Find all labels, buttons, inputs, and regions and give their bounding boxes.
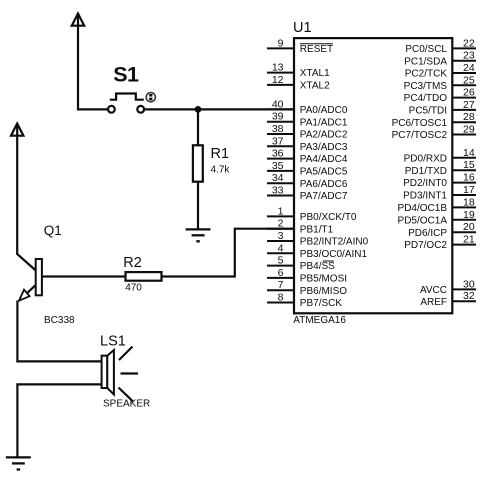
- svg-text:23: 23: [463, 50, 475, 62]
- svg-text:PD3/INT1: PD3/INT1: [403, 191, 447, 202]
- svg-text:PA4/ADC4: PA4/ADC4: [300, 154, 348, 165]
- svg-text:20: 20: [463, 221, 475, 233]
- svg-text:32: 32: [463, 290, 475, 302]
- power symbol VCC arrow (left): [11, 124, 23, 136]
- wire speaker bottom to ground: [17, 384, 101, 457]
- svg-text:PA3/ADC3: PA3/ADC3: [300, 142, 348, 153]
- svg-text:12: 12: [272, 74, 284, 86]
- svg-text:18: 18: [463, 196, 475, 208]
- pin 8 stub: [267, 302, 294, 304]
- svg-text:40: 40: [272, 98, 284, 110]
- svg-text:7: 7: [278, 279, 284, 291]
- svg-text:S1: S1: [113, 63, 139, 87]
- pin 33 stub: [267, 195, 294, 197]
- svg-text:34: 34: [272, 172, 284, 184]
- wire Q1 base to R2: [42, 275, 126, 277]
- pin 29 stub: [452, 134, 476, 136]
- pin 25 stub: [452, 84, 476, 86]
- switch S1 actuator icon: [146, 93, 155, 102]
- svg-text:1: 1: [278, 205, 284, 217]
- ground (under R1): [186, 229, 211, 241]
- pin 5 stub: [267, 265, 294, 267]
- svg-text:PB3/OC0/AIN1: PB3/OC0/AIN1: [300, 249, 368, 260]
- svg-text:PC1/SDA: PC1/SDA: [404, 56, 447, 67]
- svg-text:PB6/MISO: PB6/MISO: [300, 286, 347, 297]
- pin 39 stub: [267, 121, 294, 123]
- pin 18 stub: [452, 206, 476, 208]
- svg-text:37: 37: [272, 135, 284, 147]
- transistor Q1 emitter arrowhead: [19, 290, 30, 301]
- svg-text:ATMEGA16: ATMEGA16: [293, 315, 346, 326]
- svg-text:PD4/OC1B: PD4/OC1B: [398, 203, 448, 214]
- wire R1 to ground: [197, 182, 199, 230]
- transistor Q1 base bar: [36, 259, 42, 295]
- pin 38 stub: [267, 133, 294, 135]
- pin 17 stub: [452, 194, 476, 196]
- pin 20 stub: [452, 231, 476, 233]
- svg-text:2: 2: [278, 218, 284, 230]
- pin 16 stub: [452, 182, 476, 184]
- svg-text:19: 19: [463, 209, 475, 221]
- svg-text:16: 16: [463, 172, 475, 184]
- pin 34 stub: [267, 182, 294, 184]
- speaker LS1 sound waves: [119, 347, 139, 402]
- svg-text:PC7/TOSC2: PC7/TOSC2: [392, 130, 448, 141]
- pin 40 stub: [267, 108, 294, 110]
- switch S1: [108, 94, 144, 113]
- svg-text:PB1/T1: PB1/T1: [300, 224, 334, 235]
- svg-text:21: 21: [463, 234, 475, 246]
- pin 27 stub: [452, 109, 476, 111]
- wire Q1 emitter down: [17, 301, 101, 362]
- svg-text:3: 3: [278, 230, 284, 242]
- pin 35 stub: [267, 170, 294, 172]
- svg-text:5: 5: [278, 255, 284, 267]
- pin 36 stub: [267, 158, 294, 160]
- svg-text:R1: R1: [211, 146, 230, 162]
- svg-text:PD5/OC1A: PD5/OC1A: [398, 215, 448, 226]
- svg-text:24: 24: [463, 62, 475, 74]
- pin 6 stub: [267, 277, 294, 279]
- svg-text:39: 39: [272, 111, 284, 123]
- svg-text:30: 30: [463, 278, 475, 290]
- svg-text:PA0/ADC0: PA0/ADC0: [300, 105, 348, 116]
- svg-text:13: 13: [272, 62, 284, 74]
- svg-text:Q1: Q1: [44, 223, 62, 238]
- pin 9 stub: [267, 47, 294, 49]
- svg-text:25: 25: [463, 74, 475, 86]
- IC U1 ATMEGA16 body: [294, 38, 452, 313]
- pin 1 stub: [267, 215, 294, 217]
- svg-text:PD7/OC2: PD7/OC2: [404, 240, 447, 251]
- svg-text:15: 15: [463, 159, 475, 171]
- pin 21 stub: [452, 244, 476, 246]
- svg-text:PA2/ADC2: PA2/ADC2: [300, 130, 348, 141]
- svg-text:AVCC: AVCC: [420, 285, 447, 296]
- wire VCC arrow to Q1 collector: [17, 124, 35, 271]
- svg-text:PB2/INT2/AIN0: PB2/INT2/AIN0: [300, 237, 369, 248]
- speaker LS1 cone: [107, 350, 114, 395]
- svg-text:PD2/INT0: PD2/INT0: [403, 178, 447, 189]
- svg-text:BC338: BC338: [44, 315, 75, 326]
- wire R2 to PB1 pin: [162, 229, 295, 277]
- svg-text:PC0/SCL: PC0/SCL: [405, 44, 447, 55]
- svg-text:PD6/ICP: PD6/ICP: [408, 228, 447, 239]
- svg-text:8: 8: [278, 292, 284, 304]
- pin 24 stub: [452, 72, 476, 74]
- pin 19 stub: [452, 219, 476, 221]
- svg-text:AREF: AREF: [420, 297, 447, 308]
- pin 23 stub: [452, 60, 476, 62]
- svg-text:27: 27: [463, 99, 475, 111]
- wire S1 to PA0 pin: [144, 108, 294, 110]
- svg-text:SPEAKER: SPEAKER: [103, 399, 150, 410]
- svg-text:PA1/ADC1: PA1/ADC1: [300, 117, 348, 128]
- svg-text:29: 29: [463, 124, 475, 136]
- svg-text:28: 28: [463, 111, 475, 123]
- pin 13 stub: [267, 72, 294, 74]
- svg-text:6: 6: [278, 267, 284, 279]
- junction node S1/R1/PA0: [195, 106, 202, 113]
- svg-text:XTAL2: XTAL2: [300, 81, 330, 92]
- svg-text:PC5/TDI: PC5/TDI: [409, 106, 447, 117]
- svg-text:U1: U1: [293, 20, 312, 36]
- svg-text:17: 17: [463, 184, 475, 196]
- resistor R2: [126, 272, 162, 281]
- svg-text:PA6/ADC6: PA6/ADC6: [300, 179, 348, 190]
- svg-text:38: 38: [272, 123, 284, 135]
- svg-text:470: 470: [125, 283, 142, 294]
- svg-text:22: 22: [463, 37, 475, 49]
- pin 15 stub: [452, 169, 476, 171]
- pin 28 stub: [452, 121, 476, 123]
- svg-text:RESET: RESET: [300, 44, 333, 55]
- wire junction to R1: [197, 109, 199, 145]
- svg-text:36: 36: [272, 148, 284, 160]
- svg-text:4: 4: [278, 242, 284, 254]
- svg-text:PA5/ADC5: PA5/ADC5: [300, 167, 348, 178]
- svg-text:XTAL1: XTAL1: [300, 68, 330, 79]
- ground (bottom left): [6, 457, 31, 469]
- pin 26 stub: [452, 97, 476, 99]
- speaker LS1 body: [102, 356, 108, 388]
- svg-text:PC6/TOSC1: PC6/TOSC1: [392, 118, 448, 129]
- svg-text:LS1: LS1: [100, 334, 126, 350]
- pin 32 stub: [452, 300, 476, 302]
- svg-text:PA7/ADC7: PA7/ADC7: [300, 191, 348, 202]
- resistor R1: [193, 145, 203, 181]
- svg-text:33: 33: [272, 185, 284, 197]
- pin 4 stub: [267, 252, 294, 254]
- svg-text:35: 35: [272, 160, 284, 172]
- pin 12 stub: [267, 84, 294, 86]
- svg-text:26: 26: [463, 87, 475, 99]
- pin 14 stub: [452, 157, 476, 159]
- svg-text:PB5/MOSI: PB5/MOSI: [300, 274, 347, 285]
- svg-text:14: 14: [463, 147, 475, 159]
- transistor Q1 emitter: [19, 285, 35, 300]
- pin 7 stub: [267, 289, 294, 291]
- pin 22 stub: [452, 47, 476, 49]
- svg-text:PC3/TMS: PC3/TMS: [404, 81, 448, 92]
- svg-text:R2: R2: [123, 255, 142, 271]
- svg-text:PB4/SS: PB4/SS: [300, 261, 335, 272]
- pin 2 stub: [267, 228, 294, 230]
- svg-text:PB7/SCK: PB7/SCK: [300, 298, 343, 309]
- svg-text:4.7k: 4.7k: [211, 165, 231, 176]
- svg-text:PD0/RXD: PD0/RXD: [404, 153, 447, 164]
- pin 37 stub: [267, 145, 294, 147]
- pin 30 stub: [452, 288, 476, 290]
- svg-text:9: 9: [278, 37, 284, 49]
- svg-text:PC4/TDO: PC4/TDO: [404, 93, 448, 104]
- power symbol VCC arrow (top left): [72, 14, 84, 26]
- wire VCC arrow to S1: [78, 14, 108, 110]
- svg-text:PD1/TXD: PD1/TXD: [405, 166, 447, 177]
- svg-text:PB0/XCK/T0: PB0/XCK/T0: [300, 212, 357, 223]
- svg-text:PC2/TCK: PC2/TCK: [405, 69, 448, 80]
- pin 3 stub: [267, 240, 294, 242]
